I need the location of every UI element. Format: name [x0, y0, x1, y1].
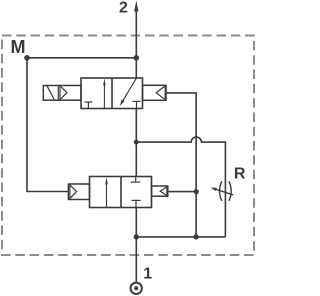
valve U2 left pilot triangle	[70, 185, 77, 199]
svg-text:M: M	[11, 37, 26, 57]
valve U1 body (top 3/2 valve)	[81, 78, 143, 109]
valve U2 right pilot triangle	[160, 187, 167, 196]
throttle R arcs	[220, 181, 222, 201]
wire U1 bottom port down to node C	[135, 109, 137, 177]
valve U2 left-position flow arrow	[106, 184, 108, 208]
node A (junction dot on port-2 line)	[134, 55, 140, 61]
node D (junction dot on net B)	[194, 189, 199, 194]
valve U1 left-position blocked port T	[87, 102, 89, 109]
wire M node to center node	[27, 57, 136, 59]
valve U1 right-position diagonal flow path	[123, 78, 137, 101]
valve U2 body (bottom 3/2 valve)	[90, 177, 152, 208]
node F (junction dot net B at bottom wire)	[193, 234, 198, 239]
valve U2 right pilot box	[152, 186, 168, 196]
bottom wire node E to throttle branch corner	[136, 236, 225, 238]
valve U1 right pilot box	[143, 85, 167, 100]
wire node C to throttle branch (hop over net B)	[136, 137, 225, 237]
node E (junction dot)	[134, 234, 139, 239]
svg-text:1: 1	[143, 266, 152, 283]
svg-text:2: 2	[119, 0, 128, 17]
valve U1 solenoid slash	[47, 86, 55, 100]
valve U1 left pilot triangle	[60, 86, 67, 100]
valve U1 right-position blocked port T	[136, 101, 138, 108]
valve U1 right pilot triangle	[156, 86, 165, 100]
wire U1 right pilot to net B	[166, 93, 196, 237]
wire U2 right pilot to net B	[168, 191, 196, 193]
port 1 symbol (circle with dot)	[131, 283, 142, 294]
node M (junction dot)	[24, 55, 30, 61]
wire node E down to port 1	[135, 237, 137, 282]
valve U1 solenoid actuator box	[43, 86, 81, 101]
valve U1 left-position flow arrow	[103, 85, 105, 109]
wire U2 bottom port to node E	[135, 208, 137, 237]
valve U2 right-position blocked top port T	[135, 177, 137, 183]
valve U2 left pilot box	[68, 184, 89, 200]
port 2 arrow	[135, 11, 137, 59]
throttle R adjustment arrow	[216, 189, 234, 195]
svg-text:R: R	[234, 166, 246, 183]
wire node A to valve U1 top port	[135, 58, 137, 78]
node C (junction dot center)	[134, 140, 139, 145]
valve U2 right-position blocked bottom port T	[135, 200, 137, 207]
wire M branch down	[27, 58, 68, 192]
enclosure (dashed boundary)	[2, 36, 254, 256]
